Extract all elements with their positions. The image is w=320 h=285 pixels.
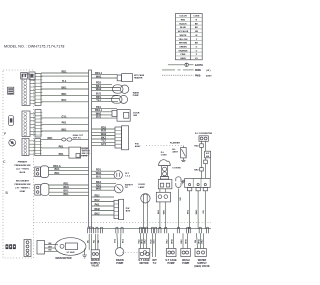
PWB edge connector third bbox=[35, 139, 42, 156]
motor M label bbox=[125, 173, 130, 178]
varistor branch wire bbox=[182, 146, 184, 148]
wire BK1 bbox=[41, 86, 89, 89]
connector CN2 lower bbox=[22, 111, 30, 137]
svg-text:D.C CONVERTER: D.C CONVERTER bbox=[195, 133, 213, 135]
svg-text:LAMP: LAMP bbox=[139, 186, 146, 189]
water supply valve bbox=[91, 250, 99, 259]
svg-text:( W ): ( W ) bbox=[206, 70, 211, 72]
svg-text:PK1: PK1 bbox=[62, 122, 67, 125]
svg-text:PUMP: PUMP bbox=[167, 262, 174, 265]
svg-text:BK1: BK1 bbox=[63, 193, 69, 196]
svg-text:BK1: BK1 bbox=[61, 128, 67, 131]
bottom connector CN3 bbox=[24, 240, 31, 257]
buzzer cap bbox=[159, 160, 171, 166]
primary pressure switch label bbox=[15, 160, 31, 174]
svg-text:GN: GN bbox=[180, 197, 182, 201]
wires CN1 to PWB connector bbox=[30, 80, 35, 103]
thermal cut-out contacts bbox=[62, 138, 72, 141]
noise filter comp bbox=[204, 160, 208, 164]
svg-text:MODEL NO. : DWH7175,7174,7178: MODEL NO. : DWH7175,7174,7178 bbox=[4, 45, 65, 49]
wire PK1 bbox=[41, 122, 89, 125]
drain pump label bbox=[116, 259, 124, 265]
svg-text:RD1: RD1 bbox=[61, 70, 67, 73]
svg-text:RD1: RD1 bbox=[61, 93, 67, 96]
terminal block 2 bbox=[114, 199, 124, 219]
svg-text:S/W: S/W bbox=[133, 115, 137, 117]
svg-text:SB: SB bbox=[195, 31, 198, 33]
svg-text:SAFETY: SAFETY bbox=[125, 184, 134, 187]
right rail bbox=[210, 158, 212, 179]
svg-text:WIRE: WIRE bbox=[195, 70, 201, 72]
svg-text:BU: BU bbox=[195, 27, 199, 29]
svg-text:T/C: T/C bbox=[125, 187, 129, 189]
safety thermostat wires bbox=[92, 181, 117, 191]
svg-text:FLASHER: FLASHER bbox=[170, 141, 180, 144]
svg-text:VALVE: VALVE bbox=[91, 265, 99, 268]
motor wires bbox=[46, 243, 58, 252]
cabinet boundary dashed bbox=[34, 222, 212, 224]
svg-text:BK: BK bbox=[48, 243, 52, 245]
svg-text:GREEN: GREEN bbox=[179, 47, 187, 49]
pressure switch wires bbox=[35, 167, 41, 177]
safety thermostat bbox=[115, 184, 124, 193]
svg-text:RD: RD bbox=[94, 240, 96, 244]
terminal block 1 wires bbox=[92, 126, 116, 146]
heater wires bbox=[92, 72, 118, 78]
housing wire RD1 bbox=[49, 182, 89, 185]
relay wires bbox=[160, 189, 166, 193]
svg-text:(H&C) VALVE: (H&C) VALVE bbox=[194, 265, 210, 268]
buzzer body bbox=[160, 166, 168, 180]
wires CN2 to PWB connector bbox=[30, 114, 35, 135]
svg-text:BK1: BK1 bbox=[54, 172, 60, 175]
water valve label bbox=[194, 259, 210, 268]
motor M bbox=[114, 171, 122, 179]
motor symbol M1 bbox=[9, 139, 16, 146]
wash pump bottom bbox=[181, 249, 191, 257]
svg-text:PUMP: PUMP bbox=[133, 95, 140, 97]
case motor label bbox=[138, 259, 150, 265]
svg-text:BU: BU bbox=[87, 240, 89, 244]
water supply valve label bbox=[91, 259, 101, 268]
svg-text:RD1: RD1 bbox=[63, 182, 69, 185]
wire L1 to bus bbox=[41, 70, 89, 73]
svg-text:ASSY: ASSY bbox=[135, 145, 141, 148]
svg-text:PINK: PINK bbox=[181, 54, 186, 56]
svg-text:( LO ~ HIGH ): ( LO ~ HIGH ) bbox=[16, 168, 29, 170]
wire RD1 bbox=[41, 93, 89, 96]
svg-text:GN: GN bbox=[203, 210, 205, 214]
svg-text:PRESSURE S/W: PRESSURE S/W bbox=[15, 184, 31, 186]
motor M wires bbox=[92, 169, 116, 179]
svg-text:BLUE: BLUE bbox=[180, 27, 186, 29]
svg-text:CONV: CONV bbox=[161, 155, 168, 157]
wash pump label bbox=[182, 259, 190, 265]
svg-text:PWB: PWB bbox=[195, 75, 201, 77]
svg-text:PUMP: PUMP bbox=[116, 262, 123, 265]
svg-text:BU1: BU1 bbox=[61, 99, 67, 102]
safety thermostat label bbox=[125, 184, 134, 190]
terminal block 1 label bbox=[135, 144, 141, 149]
svg-text:WH: WH bbox=[48, 246, 52, 248]
svg-text:S.T 60HZ: S.T 60HZ bbox=[66, 252, 75, 254]
svg-text:BR: BR bbox=[195, 43, 199, 45]
dc line right bbox=[205, 141, 207, 178]
thermistor wires bbox=[92, 106, 118, 119]
housing wire BK1 bbox=[49, 193, 89, 196]
svg-text:T.C: T.C bbox=[153, 262, 157, 265]
wash motor bbox=[113, 85, 129, 94]
green wire down bbox=[178, 189, 182, 229]
svg-text:PK1: PK1 bbox=[59, 145, 64, 148]
wash pump wires bbox=[181, 233, 188, 248]
svg-text:CODE: CODE bbox=[193, 16, 200, 18]
svg-text:RD1: RD1 bbox=[47, 137, 53, 140]
wire GY1 bbox=[41, 115, 89, 118]
door lamp label bbox=[139, 184, 146, 189]
svg-text:MOTOR: MOTOR bbox=[139, 262, 148, 265]
mushroom motor label bbox=[161, 152, 168, 157]
pressure switch pin box bbox=[35, 185, 41, 195]
svg-text:BU1: BU1 bbox=[54, 168, 60, 171]
wire RD1.A bbox=[49, 165, 89, 168]
svg-text:GRAY: GRAY bbox=[180, 57, 186, 60]
svg-text:BU2: BU2 bbox=[94, 199, 100, 202]
wire YL1 bbox=[41, 80, 89, 83]
drain motor bbox=[112, 95, 128, 103]
svg-text:GRAY: GRAY bbox=[20, 190, 26, 193]
svg-text:BLUE: BLUE bbox=[20, 172, 26, 174]
color code table bbox=[176, 14, 203, 61]
b.l assy label bbox=[172, 149, 178, 154]
svg-text:BK: BK bbox=[98, 240, 100, 244]
pump label bbox=[133, 92, 140, 98]
power inlet box A bbox=[21, 73, 28, 80]
svg-text:PRIMARY: PRIMARY bbox=[18, 160, 28, 163]
svg-text:MAIN MOTOR: MAIN MOTOR bbox=[56, 257, 72, 260]
svg-text:COLOR: COLOR bbox=[179, 16, 187, 18]
svg-text:PRESSURE S/W: PRESSURE S/W bbox=[15, 165, 31, 167]
wire BK1 lower bbox=[41, 128, 89, 131]
svg-text:WHITE: WHITE bbox=[180, 35, 187, 37]
legend wire mark bbox=[162, 70, 211, 72]
connector CN3 strip bbox=[22, 138, 29, 155]
door switch label bbox=[82, 148, 91, 157]
wire BU1 bbox=[41, 99, 89, 102]
svg-text:WH2: WH2 bbox=[94, 208, 100, 211]
terminal block 2 label bbox=[126, 208, 131, 213]
inline connectors row bbox=[88, 227, 209, 233]
legend earth symbol bbox=[168, 63, 203, 67]
dc line left bbox=[201, 141, 203, 178]
wire WH1 bbox=[41, 75, 89, 77]
svg-text:PUMP: PUMP bbox=[182, 262, 189, 265]
svg-text:( GY ): ( GY ) bbox=[82, 156, 88, 158]
svg-text:BK1: BK1 bbox=[61, 86, 67, 89]
case pump bbox=[166, 249, 176, 257]
thermistor label bbox=[133, 113, 140, 118]
dc converter bbox=[199, 136, 208, 142]
svg-text:SECONDARY: SECONDARY bbox=[16, 179, 30, 182]
svg-text:BOX: BOX bbox=[126, 211, 131, 213]
main wiring bus bbox=[89, 70, 92, 227]
main motor bbox=[55, 238, 86, 256]
svg-text:ASSY: ASSY bbox=[172, 151, 178, 154]
svg-text:RED: RED bbox=[181, 20, 186, 22]
svg-text:RD: RD bbox=[48, 250, 52, 252]
drain pump bbox=[115, 248, 123, 256]
bottom harness line bbox=[88, 228, 212, 230]
heater label bbox=[134, 74, 145, 80]
svg-text:BU1: BU1 bbox=[96, 176, 102, 179]
booster heater bbox=[117, 74, 132, 82]
connector CN1 upper bbox=[22, 74, 30, 106]
water valve bbox=[195, 249, 206, 257]
wire BK1 pressure bbox=[49, 172, 89, 175]
svg-text:HEATER: HEATER bbox=[134, 77, 143, 80]
motor connector bbox=[37, 241, 46, 255]
power cord wires bbox=[188, 191, 206, 229]
svg-text:PK1: PK1 bbox=[59, 153, 64, 156]
svg-text:WH2: WH2 bbox=[96, 88, 102, 91]
wire BU1 pressure bbox=[49, 168, 89, 171]
inline connector pair mid bbox=[176, 177, 181, 188]
case pump label bbox=[165, 259, 177, 265]
pressure switch housing bbox=[41, 184, 49, 196]
svg-text:ORANGE: ORANGE bbox=[178, 49, 188, 52]
svg-text:SKY BLUE: SKY BLUE bbox=[178, 31, 189, 33]
drain motor wires bbox=[92, 93, 120, 102]
svg-text:BU1: BU1 bbox=[96, 116, 102, 119]
dc fuse 2 bbox=[200, 168, 204, 171]
relay K2 bbox=[156, 192, 170, 202]
water valve wires bbox=[87, 234, 100, 250]
varistor ground bbox=[181, 158, 185, 162]
svg-text:ASSY: ASSY bbox=[206, 74, 212, 77]
case thermostat wires bbox=[150, 233, 155, 257]
case pump wires bbox=[166, 233, 173, 248]
secondary pressure switch label bbox=[15, 179, 31, 193]
case thermostat link bbox=[122, 252, 153, 254]
terminal block 1 bbox=[115, 126, 129, 150]
svg-text:YL1: YL1 bbox=[96, 99, 101, 102]
svg-text:GN: GN bbox=[195, 239, 197, 243]
water valve wires bbox=[195, 233, 204, 248]
legend pwb mark bbox=[162, 74, 212, 77]
primary housing bbox=[41, 166, 49, 178]
PWB edge connector upper bbox=[35, 74, 42, 106]
door lamp bbox=[141, 194, 150, 203]
fuse F1 capsule bbox=[8, 115, 13, 125]
svg-text:W: W bbox=[195, 35, 197, 37]
svg-text:BROWN: BROWN bbox=[179, 43, 188, 45]
control panel dashed enclosure bbox=[3, 70, 34, 258]
noise filter box bbox=[205, 151, 211, 158]
main motor ground bbox=[82, 249, 87, 258]
main switch box B bbox=[29, 72, 35, 79]
svg-text:RD2: RD2 bbox=[94, 194, 100, 197]
svg-text:PK1: PK1 bbox=[95, 203, 100, 206]
door lamp wires down bbox=[144, 203, 148, 229]
ground symbol bbox=[181, 180, 185, 184]
wash motor wires bbox=[92, 82, 121, 91]
dashed link wire bbox=[146, 145, 183, 147]
svg-text:YELLOW: YELLOW bbox=[179, 39, 188, 41]
thermistor assembly bbox=[112, 110, 130, 122]
thermal cut-out label bbox=[73, 135, 84, 139]
housing wire BU1 bbox=[49, 190, 89, 193]
power terminal block bbox=[185, 178, 211, 190]
relay K1 bbox=[158, 180, 172, 189]
svg-text:OUT T.C: OUT T.C bbox=[73, 138, 82, 140]
case motor wires bbox=[138, 233, 146, 248]
svg-text:WH2: WH2 bbox=[96, 188, 102, 191]
svg-text:BLACK: BLACK bbox=[179, 22, 187, 25]
svg-text:YL1: YL1 bbox=[62, 80, 67, 83]
svg-text:EARTH: EARTH bbox=[195, 64, 203, 67]
svg-text:WH1: WH1 bbox=[96, 75, 102, 78]
varistor bbox=[181, 148, 187, 158]
terminal block 2 wires bbox=[92, 194, 115, 215]
svg-text:BK: BK bbox=[195, 23, 199, 25]
transformer T1 bbox=[8, 87, 14, 94]
relay K2 wires down bbox=[158, 202, 166, 229]
case motor bbox=[139, 249, 150, 259]
door switch wires bbox=[41, 145, 89, 156]
case thermostat label bbox=[152, 259, 157, 265]
housing wire WH1 bbox=[49, 186, 89, 189]
door switch box bbox=[69, 147, 81, 158]
svg-text:BK2: BK2 bbox=[94, 212, 100, 215]
svg-text:I.V ROW: I.V ROW bbox=[172, 167, 180, 169]
svg-text:GY2: GY2 bbox=[101, 143, 107, 146]
wires CN3 to PWB bbox=[29, 141, 35, 154]
PWB edge connector lower bbox=[35, 110, 42, 138]
svg-text:( HI ~ RESET ): ( HI ~ RESET ) bbox=[16, 187, 30, 189]
svg-text:P: P bbox=[4, 132, 6, 136]
thermal cut-out wire bbox=[41, 137, 89, 140]
pwb mark bottom left bbox=[6, 244, 16, 249]
svg-text:GY1: GY1 bbox=[61, 115, 67, 118]
dc fuse 1 bbox=[200, 144, 204, 148]
drain pump wires bbox=[114, 233, 124, 248]
